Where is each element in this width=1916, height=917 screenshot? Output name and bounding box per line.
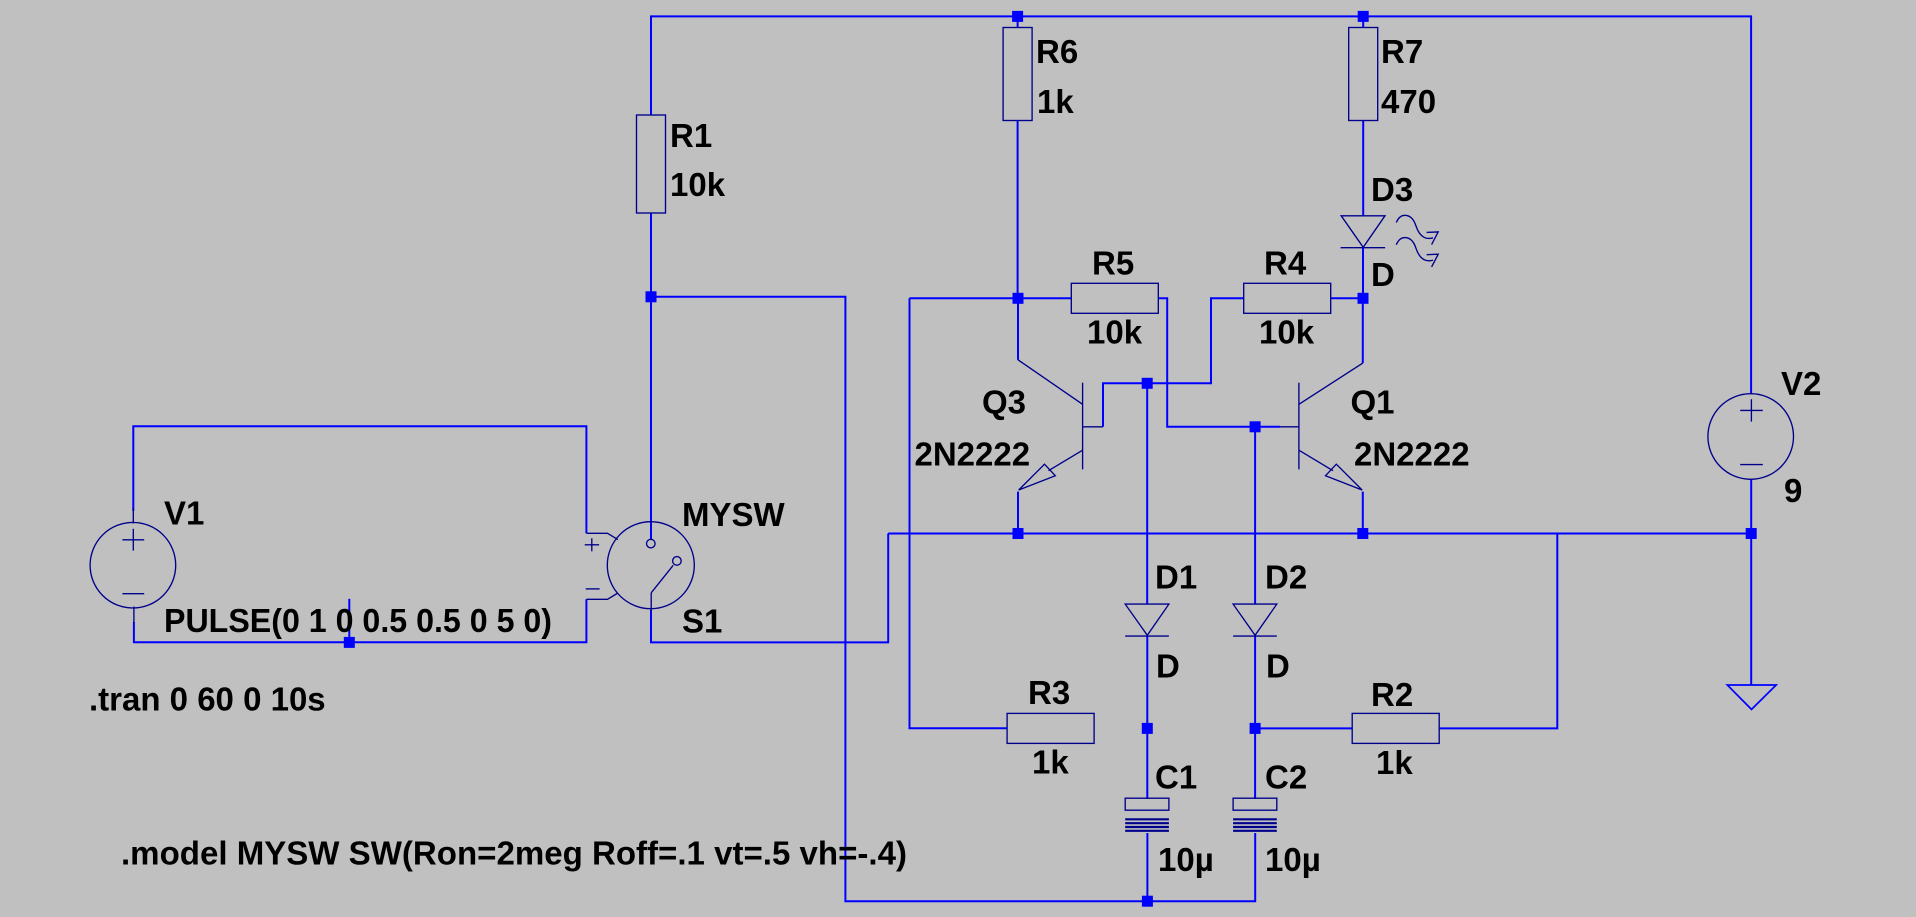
node junction D2 R2 <box>1250 723 1261 734</box>
wire Q1 emitter drop <box>1362 492 1364 534</box>
resistor R4 <box>1244 283 1331 313</box>
node junction C1 bottom <box>1142 896 1153 907</box>
wire R1 bottom to node <box>650 213 652 297</box>
resistor R2 <box>1352 713 1439 743</box>
wire stub at junction near PULSE text <box>348 599 350 643</box>
wire D2 node to R2 <box>1255 727 1352 729</box>
wire R6 bottom <box>1017 120 1019 298</box>
resistor R3 <box>1007 713 1094 743</box>
svg-text:9: 9 <box>1784 472 1802 509</box>
svg-text:10k: 10k <box>1087 314 1143 351</box>
wire R2 right riser <box>1439 534 1557 729</box>
wire D2 hang <box>1254 427 1256 604</box>
wire D1 hang <box>1146 383 1148 604</box>
wire Q3 base jog <box>1103 298 1244 427</box>
wire D3 cathode to node D <box>1362 248 1364 299</box>
wire R5 right to Q1 base <box>1158 298 1280 427</box>
node junction R1 S1 <box>646 291 657 302</box>
node junction R7 top <box>1358 11 1369 22</box>
ground <box>1727 685 1776 709</box>
svg-text:D2: D2 <box>1265 559 1307 596</box>
wire R4 right to node D <box>1331 297 1363 299</box>
LED D3 <box>1341 215 1439 267</box>
transistor Q1 <box>1280 363 1363 490</box>
node junction D2 base wire <box>1250 421 1261 432</box>
voltage source V2 <box>1708 394 1794 480</box>
svg-text:C1: C1 <box>1155 759 1197 796</box>
node junction R6 R5 <box>1013 293 1024 304</box>
wire node right then down to bottom cap rail <box>651 297 1255 901</box>
svg-text:10µ: 10µ <box>1265 841 1321 878</box>
svg-text:R4: R4 <box>1264 245 1307 282</box>
svg-text:MYSW: MYSW <box>682 496 786 533</box>
svg-text:2N2222: 2N2222 <box>1354 436 1470 473</box>
wire D2 cathode to C2 <box>1254 636 1256 799</box>
svg-text:10k: 10k <box>1259 314 1315 351</box>
svg-text:D: D <box>1156 648 1180 685</box>
svg-text:1k: 1k <box>1032 744 1069 781</box>
resistor R7 <box>1349 28 1378 121</box>
svg-text:1k: 1k <box>1037 83 1074 120</box>
wire node to S1 top <box>650 297 652 540</box>
node junction V2 minus <box>1746 528 1757 539</box>
svg-text:Q3: Q3 <box>982 384 1026 421</box>
wire emitter ground rail <box>888 533 1751 535</box>
resistor R6 <box>1003 28 1032 121</box>
voltage source V1 <box>90 508 176 623</box>
capacitor C1 <box>1125 798 1169 831</box>
svg-text:D: D <box>1371 256 1395 293</box>
svg-text:R7: R7 <box>1381 33 1423 70</box>
svg-text:D: D <box>1266 648 1290 685</box>
resistor R5 <box>1071 283 1158 313</box>
capacitor C2 <box>1233 798 1277 831</box>
wire R3 left riser <box>910 298 1008 728</box>
svg-text:R6: R6 <box>1036 33 1078 70</box>
node junction D node <box>1358 293 1369 304</box>
svg-text:V2: V2 <box>1781 365 1821 402</box>
svg-text:R1: R1 <box>670 117 712 154</box>
svg-text:.tran 0 60 0 10s: .tran 0 60 0 10s <box>89 680 326 717</box>
transistor Q3 <box>1018 360 1103 490</box>
wire Q3 collector riser <box>1017 298 1019 360</box>
wire R7 top <box>1362 16 1364 27</box>
node junction R6 top <box>1012 11 1023 22</box>
resistor R1 <box>637 115 666 213</box>
node junction D1 base wire <box>1142 378 1153 389</box>
diode D2 <box>1233 604 1277 636</box>
svg-text:2N2222: 2N2222 <box>915 436 1031 473</box>
svg-text:D1: D1 <box>1155 559 1197 596</box>
wire R6 node horizontal <box>910 297 1072 299</box>
wire R6 top <box>1017 16 1019 27</box>
wire V1 bottom loop <box>134 599 587 642</box>
wire top rail <box>651 16 1751 394</box>
wire C1 bottom <box>1146 833 1148 901</box>
wire R7 bottom to D3 <box>1362 120 1364 216</box>
svg-text:R5: R5 <box>1092 245 1134 282</box>
wire D1 cathode to C1 <box>1146 636 1148 799</box>
wire V1 top loop <box>133 426 586 533</box>
svg-text:PULSE(0 1 0 0.5 0.5 0 5 0): PULSE(0 1 0 0.5 0.5 0 5 0) <box>164 602 552 639</box>
diode D1 <box>1125 604 1169 636</box>
wire V2 bottom to ground <box>1750 480 1752 685</box>
node junction Q1 emitter <box>1357 528 1368 539</box>
svg-text:.model MYSW SW(Ron=2meg Roff=.: .model MYSW SW(Ron=2meg Roff=.1 vt=.5 vh… <box>121 835 907 872</box>
svg-text:R3: R3 <box>1028 674 1070 711</box>
svg-text:V1: V1 <box>164 495 204 532</box>
svg-text:10k: 10k <box>670 166 726 203</box>
svg-text:10µ: 10µ <box>1158 841 1214 878</box>
svg-text:C2: C2 <box>1265 759 1307 796</box>
svg-text:Q1: Q1 <box>1351 384 1395 421</box>
node junction Q3 emitter <box>1013 528 1024 539</box>
node junction D1 R3 C1 <box>1142 723 1153 734</box>
svg-text:D3: D3 <box>1371 171 1413 208</box>
wire S1 bottom to right riser <box>651 534 888 643</box>
svg-text:S1: S1 <box>682 603 722 640</box>
svg-text:R2: R2 <box>1371 676 1413 713</box>
node junction V1 bottom stub <box>344 637 355 648</box>
svg-text:470: 470 <box>1381 83 1436 120</box>
svg-text:1k: 1k <box>1376 744 1413 781</box>
switch S1 <box>585 522 695 611</box>
wire Q1 collector riser <box>1362 298 1364 363</box>
wire Q3 emitter drop <box>1017 492 1019 534</box>
